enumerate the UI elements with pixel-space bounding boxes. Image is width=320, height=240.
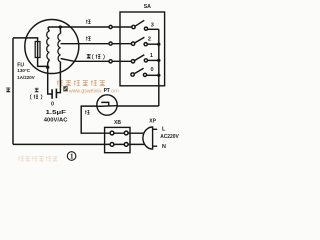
label 棕 near PT xyxy=(85,110,90,114)
svg-text:0: 0 xyxy=(151,67,154,73)
wire XB row A to XP xyxy=(105,132,145,134)
svg-text:130°C: 130°C xyxy=(17,68,31,73)
label 红 red xyxy=(86,20,91,24)
svg-text:www.gsweixiu: www.gsweixiu xyxy=(68,89,101,95)
wire: blue lead horizontal into fuse xyxy=(13,38,38,42)
svg-text:1.5µF: 1.5µF xyxy=(46,110,67,116)
svg-text:SA: SA xyxy=(144,4,151,10)
switch row2 xyxy=(131,42,134,45)
watermark bottom-left 品通维修下载 faint xyxy=(18,156,57,161)
plug XP half-disc xyxy=(143,127,153,149)
winding L2 (right, speed taps) xyxy=(58,34,61,62)
switch box SA xyxy=(120,12,165,86)
wire: winding L2 bottom down to capacitor xyxy=(57,62,61,93)
svg-text:PT: PT xyxy=(104,88,110,94)
svg-text:2: 2 xyxy=(148,36,151,42)
connector block XB xyxy=(105,127,130,152)
watermark line1 品通维修下载 xyxy=(57,80,105,85)
junction dot fuse/winding/cap xyxy=(46,66,49,69)
svg-text:3: 3 xyxy=(151,22,154,28)
bus junction dots xyxy=(157,43,160,46)
svg-text:1: 1 xyxy=(70,153,74,161)
label 灰(棕) row1 xyxy=(87,54,105,59)
svg-text:0: 0 xyxy=(51,101,54,107)
motor stator circle M xyxy=(25,20,79,74)
wire: brown 棕 row2 tap xyxy=(61,43,132,45)
label 灰(棕) capacitor xyxy=(30,88,42,99)
label 棕 brown row2 xyxy=(86,37,91,41)
svg-text:XB: XB xyxy=(114,120,121,126)
right winding top lead xyxy=(59,27,61,34)
capacitor C plates xyxy=(51,89,53,99)
wire: red 红 row3 xyxy=(48,26,132,28)
wire through fuse down then right to junction xyxy=(38,42,48,67)
PT internal lever xyxy=(101,102,109,106)
bus wire right side of SA down to PT xyxy=(158,29,160,106)
XP stubs L/N xyxy=(153,129,158,146)
XB terminals row A xyxy=(110,131,114,135)
fuse FU body xyxy=(35,42,40,58)
svg-text:1A/220V: 1A/220V xyxy=(17,75,35,80)
protector PT circle xyxy=(97,95,117,115)
wire: winding L1 bottom down to capacitor xyxy=(48,60,52,95)
left winding top lead from red node xyxy=(48,27,49,31)
svg-text:om: om xyxy=(111,89,119,95)
switch row1 xyxy=(131,60,134,63)
switch row0 xyxy=(131,73,134,76)
XB terminals row B xyxy=(110,143,114,147)
PT internal through wire xyxy=(97,105,117,108)
figure number circled 1 xyxy=(67,152,76,161)
terminal circle row2 xyxy=(109,42,112,45)
junction dot red node xyxy=(59,25,62,28)
watermark logo square xyxy=(63,86,67,91)
svg-text:1: 1 xyxy=(150,53,153,59)
svg-text:XP: XP xyxy=(149,119,156,125)
winding L1 (left, main) xyxy=(47,31,50,59)
wire: PT left lead, down to XB row A xyxy=(81,106,104,133)
svg-text:400V/AC: 400V/AC xyxy=(44,117,68,123)
switch row3: pivot, arm, contact, stub xyxy=(132,25,135,28)
wire: gray 灰(棕) row1 tap xyxy=(61,59,132,62)
svg-text:AC220V: AC220V xyxy=(160,134,179,140)
wire: PT right lead xyxy=(117,105,159,107)
wire: blue lead left vertical + bottom rail to XB/XP xyxy=(13,38,145,144)
terminal circle row1 xyxy=(109,60,112,63)
label 蓝 blue xyxy=(6,88,10,92)
svg-text:N: N xyxy=(162,144,166,150)
terminal circle row3 xyxy=(109,25,112,28)
